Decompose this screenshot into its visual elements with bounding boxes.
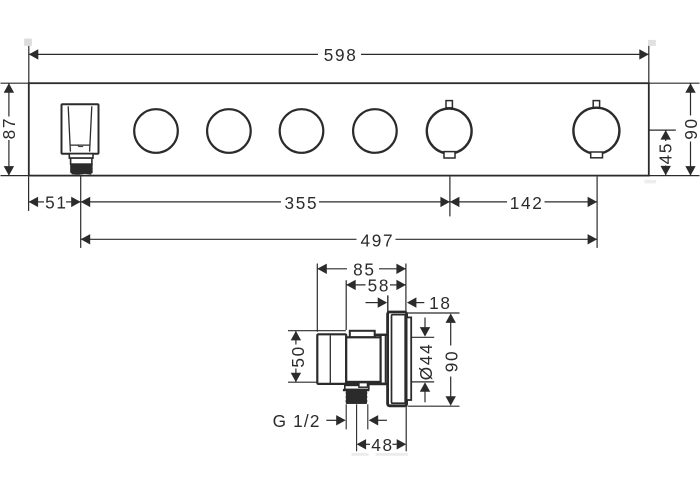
G 1/2 leader right <box>369 415 387 425</box>
escutcheon inner face <box>392 315 406 404</box>
handle outline (side view) <box>317 334 346 384</box>
thread trapezoid (side view) <box>343 389 369 404</box>
neck top edge <box>375 334 389 336</box>
control knob 5 bottom tab <box>444 152 455 158</box>
connector neck <box>381 335 389 384</box>
extension line 58 left <box>345 280 347 330</box>
svg-text:90: 90 <box>681 117 700 140</box>
svg-text:51: 51 <box>45 193 68 213</box>
svg-text:G 1/2: G 1/2 <box>273 411 321 431</box>
extension tick for 45 <box>649 129 676 131</box>
body bottom step <box>345 385 369 389</box>
holder body outline <box>62 104 99 153</box>
select button 4 <box>353 109 397 153</box>
dimension 58 arrows <box>346 280 406 290</box>
tick 50 bottom <box>288 381 338 383</box>
dimension 85 label <box>353 260 376 280</box>
holder thread (front view) <box>70 164 92 175</box>
dimension 85 line <box>317 268 406 270</box>
select button 2 <box>207 109 251 153</box>
dimension 51 label <box>45 193 68 213</box>
svg-text:58: 58 <box>368 276 391 296</box>
extension line 18 left <box>387 295 389 311</box>
dimension 87 label <box>0 117 19 140</box>
svg-text:598: 598 <box>324 45 358 65</box>
dimension 44 arrows upper <box>420 327 430 337</box>
dimension 90 label <box>681 117 700 140</box>
dimension 18 left leader <box>366 297 388 307</box>
dimension 90 side arrows <box>446 313 456 405</box>
extension line plate bottom <box>408 405 460 407</box>
tick 50 top <box>288 330 346 332</box>
thread edge extension right <box>367 404 369 429</box>
svg-text:48: 48 <box>371 435 394 455</box>
dimension 51 arrows <box>29 197 81 207</box>
dimension 50 line <box>295 331 297 382</box>
svg-text:355: 355 <box>284 193 318 213</box>
tick 44 top <box>411 336 434 338</box>
control knob 6 bottom tab <box>591 152 603 158</box>
svg-text:142: 142 <box>510 193 544 213</box>
valve body (side view) <box>346 337 380 382</box>
dimension 497 label <box>360 230 394 250</box>
extension line 85 left <box>316 264 318 332</box>
dimension 90 line <box>690 83 692 175</box>
extension line holder centre <box>80 175 82 248</box>
dimension 48 arrows <box>357 439 407 449</box>
artifact bar small <box>351 453 368 456</box>
select button 1 <box>134 109 178 153</box>
control knob 5 top index tab <box>446 101 452 108</box>
dimension 355 label <box>284 193 318 213</box>
extension line knob 6 centre <box>596 177 598 248</box>
dimension 355 arrows <box>81 197 450 207</box>
thread centreline extension <box>356 404 358 451</box>
extension ticks for 87 <box>1 83 29 175</box>
dimension 497 arrows <box>81 234 597 244</box>
dimension 355 line <box>81 201 450 203</box>
G 1/2 leader left <box>326 415 345 425</box>
connector neck inner line <box>384 336 386 383</box>
artifact square left <box>24 39 32 46</box>
dimension 45 label <box>655 142 675 165</box>
svg-text:90: 90 <box>442 350 462 373</box>
dimension 598 label <box>324 45 358 65</box>
dimension 58 label <box>368 276 391 296</box>
svg-text:497: 497 <box>360 230 394 250</box>
dimension 45 line <box>665 130 667 175</box>
artifact bar panel corner <box>645 180 657 184</box>
dimension 50 label <box>288 345 308 368</box>
dimension 44 lower line <box>424 391 426 402</box>
dimension 90 arrows <box>685 83 695 175</box>
extension line knob 5 centre <box>449 177 451 217</box>
dimension 51 line <box>29 201 81 203</box>
extension line plate top <box>408 312 460 314</box>
extension line right edge (598) <box>648 46 650 83</box>
select button 3 <box>280 109 324 153</box>
dimension 497 line <box>81 238 597 240</box>
holder neck lower step <box>71 158 92 164</box>
tick 44 bottom <box>411 381 434 383</box>
dimension 18 label <box>429 293 452 313</box>
dimension 87 line <box>8 83 10 175</box>
trim plate outline (front view) <box>29 83 649 175</box>
svg-text:50: 50 <box>288 345 308 368</box>
dimension 58 line <box>346 284 406 286</box>
holder neck upper step <box>69 154 93 158</box>
dimension 598 arrows <box>29 49 649 59</box>
label G 1/2 <box>273 411 321 431</box>
dimension 87 arrows <box>4 83 14 175</box>
dimension 90 side line <box>450 323 452 397</box>
artifact square right <box>648 40 656 46</box>
dimension 50 arrows <box>291 331 301 382</box>
svg-text:Ø44: Ø44 <box>416 343 436 381</box>
thread edge extension left <box>345 404 347 429</box>
holder inner right edge <box>90 106 92 151</box>
dimension 18 right leader <box>407 297 424 307</box>
holder inner left edge <box>68 106 70 151</box>
extension line panel left (51) <box>28 177 30 211</box>
dimension 45 arrows <box>661 130 671 175</box>
extension ticks for 90 <box>649 83 700 175</box>
dimension 44 arrows lower <box>420 382 430 392</box>
dimension 598 line <box>29 53 649 55</box>
escutcheon plate (side view) <box>388 312 407 406</box>
holder inner shelf line <box>70 145 90 147</box>
dimension 142 label <box>510 193 544 213</box>
wall flange behind plate <box>407 317 412 400</box>
svg-text:87: 87 <box>0 117 19 140</box>
dimension 48 label <box>371 435 394 455</box>
dimension 48 line <box>366 443 397 445</box>
dimension 44 upper line <box>424 318 426 329</box>
dimension 142 line <box>450 201 597 203</box>
body bottom notch <box>359 383 368 388</box>
svg-text:45: 45 <box>655 142 675 165</box>
handle inner line <box>329 335 331 383</box>
control knob 6 top index tab <box>593 101 599 108</box>
valve body top step <box>350 331 375 338</box>
control knob 5 <box>427 109 472 154</box>
svg-text:18: 18 <box>429 293 452 313</box>
plate front extension lower <box>405 407 407 452</box>
control knob 6 (thermostat) <box>573 108 619 154</box>
dimension 142 arrows <box>450 197 597 207</box>
artifact bar wide <box>376 453 408 456</box>
dimension 44 label <box>416 343 436 381</box>
dimension 85 arrows <box>317 264 406 274</box>
neck bottom edge <box>345 383 389 386</box>
extension line plate front upper <box>405 264 407 312</box>
dimension 90 side label <box>442 350 462 373</box>
extension line left edge (598) <box>28 46 30 83</box>
